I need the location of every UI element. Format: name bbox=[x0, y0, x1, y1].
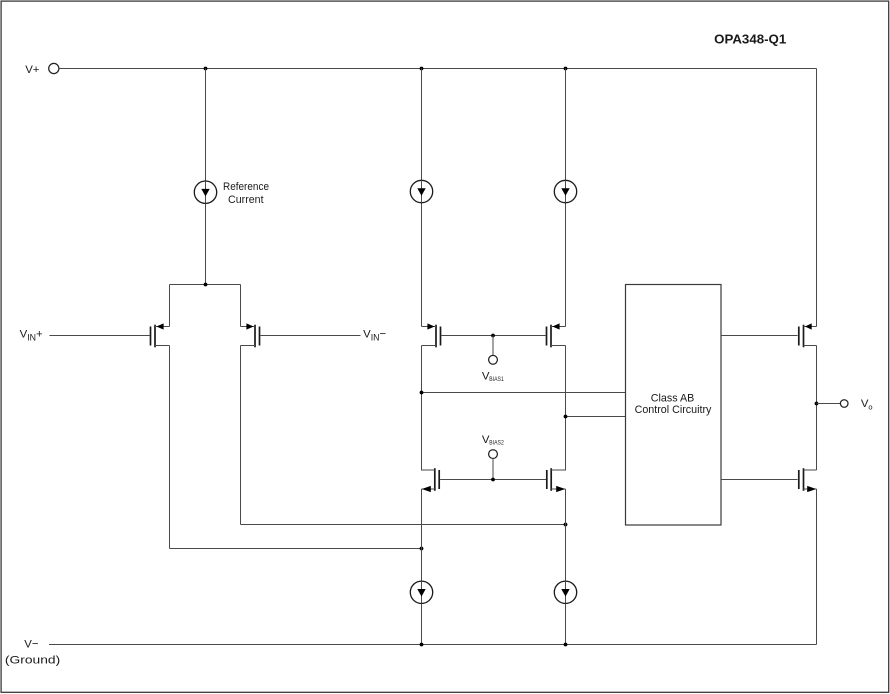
wire left mirror upper vertical bbox=[421, 69, 423, 327]
wire VBIAS2 stub bbox=[492, 459, 494, 480]
transistor Q3 upper cascode left PMOS bbox=[422, 323, 441, 347]
node VBIAS2 terminal bbox=[482, 434, 504, 459]
wire output lead bbox=[817, 403, 841, 405]
wire left mirror lower vertical bbox=[421, 489, 423, 645]
wire right mirror upper vertical bbox=[565, 69, 567, 327]
svg-text:BIAS1: BIAS1 bbox=[489, 376, 504, 383]
current source I3 right upper bbox=[554, 180, 576, 202]
junction output node bbox=[815, 402, 819, 406]
wire tail stub right bbox=[240, 285, 242, 327]
wire right mirror lower vertical bbox=[565, 489, 567, 645]
junction V- rail / left mirror bbox=[420, 643, 424, 647]
junction input 2 / right mirror bbox=[564, 415, 568, 419]
transistor Q4 upper cascode right PMOS bbox=[547, 323, 566, 347]
wire class AB output top bbox=[721, 335, 798, 337]
transistor Q5 lower cascode left NMOS bbox=[422, 468, 440, 492]
current source I5 right lower bbox=[554, 581, 576, 603]
svg-text:(Ground): (Ground) bbox=[5, 654, 61, 666]
junction gate bus / VBIAS2 stub bbox=[491, 478, 495, 482]
label Reference Current bbox=[223, 181, 269, 206]
svg-text:OPA348-Q1: OPA348-Q1 bbox=[714, 32, 786, 46]
wire VIN+ gate lead bbox=[49, 335, 149, 337]
svg-text:Current: Current bbox=[228, 194, 264, 206]
transistor Q2 input PMOS VIN- bbox=[241, 323, 260, 347]
wire V+ rail bbox=[59, 68, 817, 70]
junction V- rail / right mirror bbox=[564, 643, 568, 647]
wire output branch upper vertical bbox=[816, 69, 818, 327]
wire VBIAS1 stub bbox=[492, 336, 494, 356]
transistor Q7 output PMOS bbox=[799, 323, 817, 347]
current source I4 left lower bbox=[410, 581, 432, 603]
wire right drain horizontal run bbox=[241, 524, 566, 526]
node V- Ground label bbox=[5, 638, 61, 666]
wire lower cascode gate bus bbox=[440, 479, 546, 481]
transistor Q8 output NMOS bbox=[799, 468, 817, 492]
wire output branch mid vertical bbox=[816, 346, 818, 471]
wire class AB input 2 bbox=[566, 416, 626, 418]
svg-text:Control Circuitry: Control Circuitry bbox=[635, 404, 712, 416]
wire V- rail bbox=[49, 644, 817, 646]
wire class AB output bottom bbox=[721, 479, 798, 481]
wire right input drain vertical bbox=[240, 346, 242, 525]
junction V+ rail / right mirror branch bbox=[564, 67, 568, 71]
wire VIN- gate lead bbox=[260, 335, 360, 337]
node V+ terminal bbox=[25, 63, 59, 76]
wire right mirror mid vertical bbox=[565, 346, 567, 471]
svg-text:Class AB: Class AB bbox=[651, 392, 695, 404]
block U1 Class AB Control Circuitry bbox=[626, 285, 722, 526]
junction right drain / right mirror branch bbox=[564, 523, 568, 527]
svg-text:Reference: Reference bbox=[223, 181, 269, 193]
junction tail bar / reference branch bbox=[204, 283, 208, 287]
junction gate bus / VBIAS1 stub bbox=[491, 334, 495, 338]
junction V+ rail / left mirror branch bbox=[420, 67, 424, 71]
junction V+ rail / reference branch bbox=[204, 67, 208, 71]
node VBIAS1 terminal bbox=[482, 355, 504, 383]
node Vo terminal bbox=[840, 398, 872, 412]
wire left mirror mid vertical bbox=[421, 346, 423, 471]
current source I1 reference current bbox=[194, 181, 216, 203]
wire tail stub left bbox=[169, 285, 171, 327]
transistor Q1 input PMOS VIN+ bbox=[151, 323, 170, 347]
wire class AB input 1 bbox=[422, 392, 626, 394]
junction input 1 / left mirror bbox=[420, 391, 424, 395]
wire upper cascode gate bus bbox=[441, 335, 545, 337]
wire tail bar of input pair bbox=[170, 284, 241, 286]
svg-text:V+: V+ bbox=[25, 64, 40, 76]
wire output branch lower vertical bbox=[816, 489, 818, 645]
svg-text:V−: V− bbox=[24, 638, 39, 650]
svg-text:o: o bbox=[868, 403, 872, 412]
junction left drain / left mirror branch bbox=[420, 547, 424, 551]
current source I2 left upper bbox=[410, 180, 432, 202]
transistor Q6 lower cascode right NMOS bbox=[547, 468, 566, 492]
svg-text:BIAS2: BIAS2 bbox=[489, 440, 504, 447]
wire left input drain vertical bbox=[169, 346, 171, 549]
wire left drain horizontal run bbox=[170, 548, 422, 550]
wire reference branch vertical bbox=[205, 69, 207, 285]
